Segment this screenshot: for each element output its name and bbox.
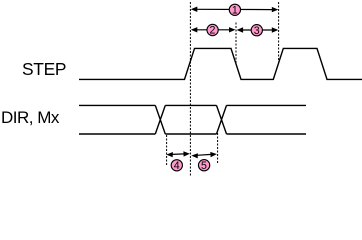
arrow 3 (low time) bbox=[237, 27, 279, 32]
circle label 4 bbox=[171, 160, 182, 172]
circle label 3 bbox=[251, 25, 262, 37]
svg-text:3: 3 bbox=[254, 25, 260, 37]
svg-text:1: 1 bbox=[232, 5, 238, 17]
svg-text:DIR, Mx: DIR, Mx bbox=[1, 108, 60, 127]
svg-text:2: 2 bbox=[210, 25, 216, 37]
dashed marker line t5 (DIR change) bbox=[217, 133, 219, 163]
DIR bus crossover X1 bbox=[155, 105, 165, 134]
circle label 2 bbox=[207, 24, 218, 36]
dashed marker line t2 (STEP falling edge) bbox=[235, 23, 237, 64]
DIR bus top line bbox=[79, 104, 306, 106]
dashed marker line t3 (STEP next rising edge) bbox=[278, 2, 280, 62]
svg-text:5: 5 bbox=[201, 160, 207, 172]
dashed marker line t1 (STEP rising edge, full height) bbox=[189, 2, 191, 177]
arrow 5 (hold time) bbox=[191, 152, 217, 159]
svg-text:STEP: STEP bbox=[22, 59, 66, 79]
arrow 2 (high time) bbox=[191, 27, 236, 32]
svg-text:4: 4 bbox=[174, 160, 180, 172]
DIR bus crossover X2 bbox=[217, 105, 227, 134]
arrow 4 (setup time) bbox=[166, 151, 190, 157]
arrow 1 (period) bbox=[191, 7, 278, 13]
DIR bus bottom line bbox=[79, 133, 306, 135]
dashed marker line t4 (DIR valid) bbox=[166, 135, 168, 165]
circle label 1 bbox=[229, 4, 240, 16]
circle label 5 bbox=[198, 160, 209, 172]
STEP waveform bbox=[79, 48, 362, 79]
